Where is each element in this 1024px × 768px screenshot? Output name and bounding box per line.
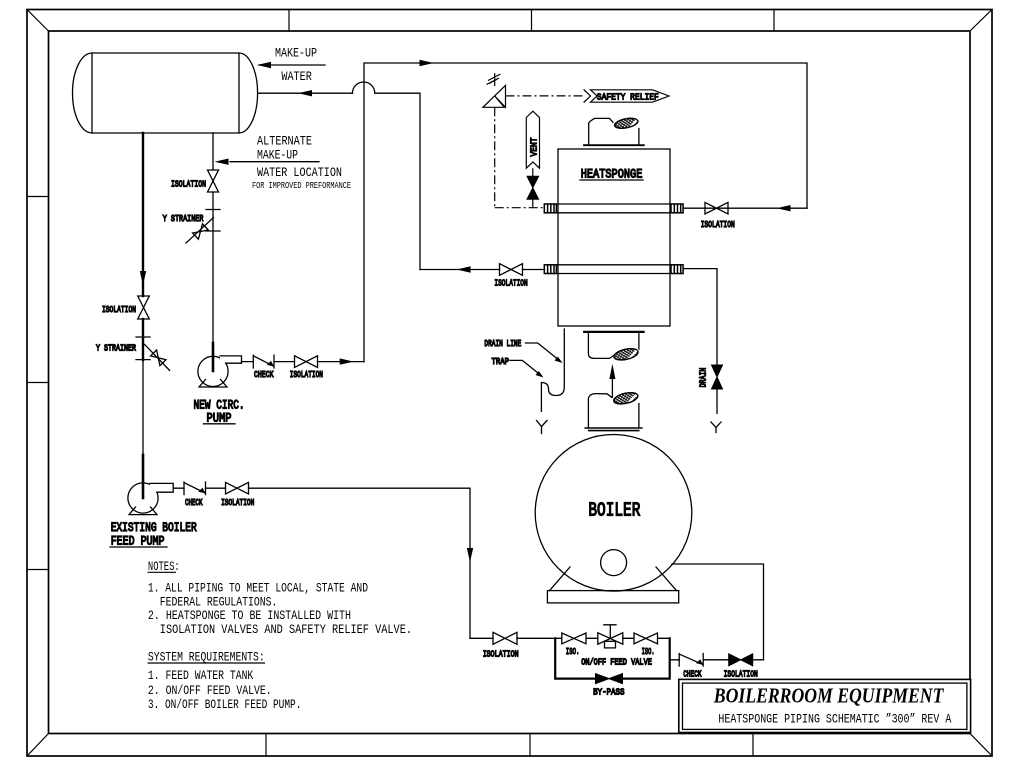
labels make-up water [275, 46, 317, 84]
wire: riser from new pump to top run, to x807, down to heatsponge inlet [364, 63, 807, 362]
svg-text:BY-PASS: BY-PASS [593, 687, 625, 698]
wire: train outlet to boiler riser [670, 659, 764, 661]
svg-text:HEATSPONGE PIPING SCHEMATIC ”3: HEATSPONGE PIPING SCHEMATIC ”300” REV A [718, 712, 951, 727]
wire: tank right drop pipe to new pump [212, 133, 214, 170]
wire: new pump discharge [242, 361, 365, 363]
wire: alternate make-up line [230, 161, 319, 163]
drain valve (filled) [712, 365, 723, 389]
svg-text:ISOLATION: ISOLATION [483, 649, 519, 660]
boiler [535, 435, 692, 603]
svg-text:2. HEATSPONGE TO BE INSTALLED: 2. HEATSPONGE TO BE INSTALLED WITH [148, 608, 351, 623]
wire: existing pump discharge to bottom train [173, 488, 470, 638]
svg-text:ON/OFF FEED VALVE: ON/OFF FEED VALVE [581, 656, 652, 667]
by-pass loop [555, 638, 670, 678]
isolation valve bottom left [493, 632, 517, 644]
wire: make-up water line into tank [259, 64, 325, 66]
svg-text:DRAIN: DRAIN [698, 368, 709, 388]
y strainer left drop [136, 337, 170, 370]
svg-text:ISOLATION: ISOLATION [171, 178, 206, 189]
svg-text:SAFETY RELIEF: SAFETY RELIEF [597, 91, 659, 102]
heatsponge flange band 2 [544, 265, 683, 274]
svg-text:ISO.: ISO. [566, 646, 580, 657]
svg-text:CHECK: CHECK [185, 497, 203, 508]
svg-text:3. ON/OFF BOILER FEED PUMP.: 3. ON/OFF BOILER FEED PUMP. [148, 697, 302, 712]
steam flow arrow between nozzles [611, 377, 613, 397]
wire: bottom feed train main [470, 637, 670, 639]
svg-text:ISOLATION: ISOLATION [221, 497, 254, 508]
svg-text:CHECK: CHECK [683, 668, 701, 679]
svg-text:ISOLATION: ISOLATION [290, 369, 323, 380]
svg-text:ISOLATION: ISOLATION [494, 278, 527, 289]
wire: safety relief discharge (dash-dot) [506, 95, 584, 97]
svg-text:WATER: WATER [281, 69, 312, 84]
check valve existing pump [184, 482, 206, 495]
svg-text:WATER LOCATION: WATER LOCATION [257, 165, 342, 180]
isolation valve middle outlet [500, 264, 523, 276]
frame ticks [27, 10, 774, 757]
wire: boiler feed inlet from bottom train [672, 564, 764, 660]
arrow down on left drop [140, 271, 146, 285]
arrow alternate make-up (left) [215, 159, 229, 165]
trap open end Y [537, 421, 548, 434]
wire: heatsponge middle outlet to tank return [420, 269, 544, 271]
arrow new pump discharge (right) [340, 358, 354, 364]
isolation valve left drop [138, 296, 150, 319]
isolation valve new pump discharge [295, 356, 318, 368]
svg-text:VENT: VENT [528, 137, 539, 156]
on/off feed valve (globe with handle) [598, 625, 623, 648]
arrow on middle outlet (left) [457, 266, 471, 272]
heatsponge body [558, 149, 670, 326]
svg-text:BOILERROOM EQUIPMENT: BOILERROOM EQUIPMENT [713, 683, 944, 707]
svg-text:ISOLATION: ISOLATION [102, 304, 136, 315]
iso valve 2 [634, 633, 658, 644]
check valve bottom [679, 654, 703, 667]
svg-text:MAKE-UP: MAKE-UP [257, 148, 298, 163]
vent banner [526, 111, 539, 168]
arrow on return line (left) [298, 90, 312, 96]
svg-text:ISO.: ISO. [642, 646, 655, 657]
by-pass valve (filled) [596, 674, 623, 684]
boiler top nozzle with open pipe end [585, 391, 642, 431]
vent valve (filled) [527, 176, 539, 199]
isolation valve near boiler (filled) [729, 654, 753, 666]
feed water tank [73, 53, 258, 133]
wire: drain line with trap [541, 329, 564, 411]
safety relief banner [584, 90, 669, 102]
svg-text:2. ON/OFF FEED VALVE.: 2. ON/OFF FEED VALVE. [148, 683, 272, 698]
svg-text:DRAIN LINE: DRAIN LINE [484, 338, 521, 349]
svg-text:Y STRAINER: Y STRAINER [163, 213, 204, 224]
safety relief valve assembly [483, 74, 506, 208]
arrow on top run (right) [420, 60, 434, 66]
svg-text:ISOLATION: ISOLATION [724, 668, 758, 679]
wire: return line tank to riser x420 (with hop) [258, 93, 420, 269]
labels alternate make-up [252, 134, 351, 192]
heatsponge top nozzle with open pipe end [584, 117, 644, 146]
isolation valve right drop [208, 170, 219, 192]
heatsponge flange band 1 [544, 204, 683, 213]
title block [679, 679, 971, 732]
arrow into tank (make-up) [257, 62, 271, 68]
heatsponge bottom nozzle with open pipe end [584, 332, 643, 362]
notes text block [148, 559, 413, 712]
arrow down on riser x470 [467, 548, 473, 562]
isolation valve existing pump [226, 482, 249, 494]
wire: heatsponge drain [683, 269, 717, 414]
check valve new pump [253, 355, 274, 368]
svg-text:TRAP: TRAP [492, 356, 510, 367]
svg-text:CHECK: CHECK [254, 369, 274, 380]
y strainer right drop [186, 210, 220, 244]
arrow on inlet line (left) [777, 205, 791, 211]
svg-text:Y STRAINER: Y STRAINER [96, 342, 136, 353]
isolation valve heatsponge inlet [705, 202, 728, 214]
wire: vent line (dash-dot) [495, 168, 545, 208]
svg-text:SYSTEM REQUIREMENTS:: SYSTEM REQUIREMENTS: [148, 650, 265, 665]
drain open end Y [711, 422, 721, 433]
wire: tank left drop pipe to existing pump [142, 133, 144, 296]
svg-text:ALTERNATE: ALTERNATE [257, 134, 312, 149]
iso valve 1 [562, 633, 586, 644]
svg-text:NOTES:: NOTES: [148, 559, 180, 574]
svg-text:1. FEED WATER TANK: 1. FEED WATER TANK [148, 668, 254, 683]
svg-text:ISOLATION VALVES AND SAFETY RE: ISOLATION VALVES AND SAFETY RELIEF VALVE… [160, 622, 412, 637]
svg-text:BOILER: BOILER [588, 500, 640, 522]
new circ pump [198, 356, 242, 387]
pipe hop over riser [352, 82, 374, 93]
wire: heatsponge inlet line [683, 207, 807, 209]
svg-text:ISOLATION: ISOLATION [701, 219, 735, 230]
svg-text:FOR IMPROVED PREFORMANCE: FOR IMPROVED PREFORMANCE [252, 180, 351, 191]
existing boiler feed pump [128, 483, 173, 515]
svg-text:MAKE-UP: MAKE-UP [275, 46, 317, 61]
